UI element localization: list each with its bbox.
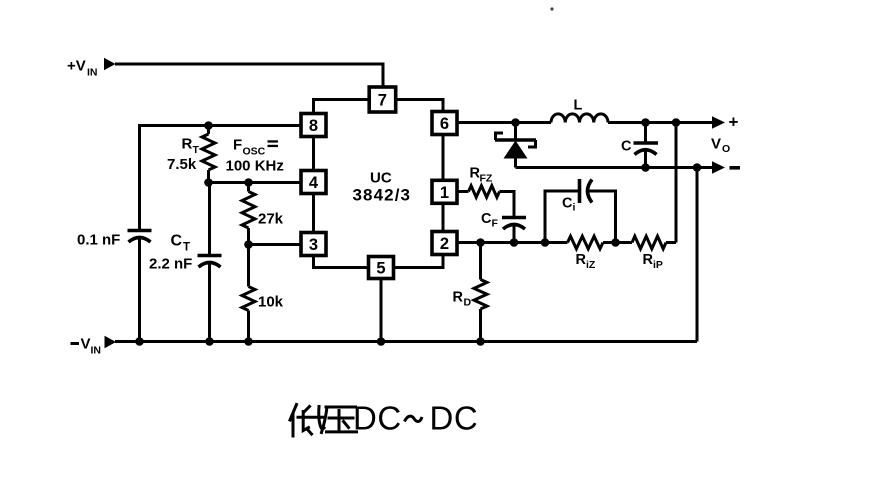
label -VIN: [71, 336, 102, 357]
capacitor Ci loop: [545, 179, 616, 243]
svg-text:UC: UC: [370, 170, 392, 187]
inductor L: [551, 114, 608, 123]
svg-text:IN: IN: [91, 345, 102, 357]
wire inductor to plus output: [608, 121, 713, 124]
label RT: [182, 136, 200, 157]
junction at 209.5,341.5: [205, 337, 214, 346]
wire right return riser: [696, 168, 699, 342]
svg-text:DC: DC: [353, 400, 402, 437]
junction at 139.5,341.5: [135, 337, 144, 346]
resistor RT 7.5k: [202, 126, 215, 183]
capacitor CT 2.2nF: [198, 183, 222, 342]
svg-text:R: R: [643, 252, 654, 268]
wire RiZ to RiP: [603, 241, 632, 244]
wire pin5 down: [380, 278, 383, 342]
junction at 248.5,244.5: [244, 240, 253, 249]
svg-text:DC: DC: [430, 400, 479, 437]
wire pin1 run: [458, 190, 469, 193]
op-amp U1 UC3842/3 body: [314, 100, 444, 268]
svg-text:O: O: [722, 143, 730, 155]
wire RiP to tap riser: [666, 241, 676, 244]
pin 7: [369, 87, 396, 112]
svg-text:C: C: [481, 211, 492, 227]
label RD: [453, 290, 472, 309]
wire pin3 run: [249, 243, 304, 246]
wire minus output rail: [516, 166, 714, 169]
svg-text:i: i: [573, 202, 576, 214]
junction at 545,242.5: [541, 238, 550, 247]
wire pin6 to switch node: [456, 121, 516, 124]
node -VIN arrow: [105, 336, 117, 348]
svg-text:T: T: [183, 242, 190, 254]
svg-text:T: T: [193, 144, 200, 156]
label VO: [711, 136, 730, 156]
svg-text:iZ: iZ: [586, 259, 596, 271]
junction at 615.5,242.5: [611, 238, 620, 247]
wire bottom ground rail: [115, 340, 697, 343]
svg-text:F: F: [492, 218, 499, 230]
resistor RFZ: [469, 186, 500, 198]
capacitor 0.1nF: [128, 231, 152, 342]
svg-text:4: 4: [309, 174, 319, 192]
svg-text:R: R: [576, 252, 587, 268]
resistor 10k: [242, 245, 255, 342]
label FOSC=: [233, 137, 278, 158]
wire switch node to inductor: [516, 121, 552, 124]
pin 3: [301, 233, 326, 256]
junction at 381,341.5: [377, 337, 386, 346]
capacitor C output: [634, 123, 659, 168]
pin 5: [369, 257, 394, 279]
svg-text:3: 3: [309, 236, 318, 254]
svg-text:3842/3: 3842/3: [353, 186, 412, 205]
junction at 480.5,242.5: [476, 238, 485, 247]
svg-text:F: F: [233, 137, 242, 154]
label RiP: [643, 252, 663, 271]
wire feedback tap riser: [675, 123, 678, 243]
wire pin2 run: [458, 241, 568, 244]
label UC 3842/3: [353, 170, 412, 205]
speck artifact: [550, 7, 553, 10]
label RFZ: [470, 166, 493, 185]
svg-text:0.1 nF: 0.1 nF: [77, 232, 120, 249]
wire pin4 run: [209, 181, 304, 184]
node +VIN input line: [115, 64, 383, 88]
wire pin8 to RT top node to left corner down to 0.1nF: [140, 126, 302, 230]
junction at 248.5,182.5: [244, 178, 253, 187]
resistor RiP: [632, 236, 666, 249]
svg-text:D: D: [464, 297, 472, 309]
caption hanzi YA (pressure): [322, 407, 357, 433]
svg-text:C: C: [621, 139, 632, 155]
svg-text:7: 7: [378, 92, 387, 110]
resistor RD: [474, 243, 487, 342]
svg-text:5: 5: [376, 260, 385, 278]
caption hanzi DI (low): [290, 405, 324, 437]
pin 6: [432, 112, 457, 135]
svg-text:6: 6: [440, 115, 449, 133]
label +VIN: [67, 58, 98, 79]
svg-text:C: C: [171, 233, 183, 250]
svg-text:8: 8: [309, 117, 318, 135]
capacitor CF: [502, 218, 526, 243]
pin 2: [432, 232, 457, 255]
label CF: [481, 211, 499, 230]
svg-text:iP: iP: [653, 259, 663, 271]
label RiZ: [576, 252, 596, 271]
svg-text:R: R: [182, 136, 193, 153]
node VO- arrow: [712, 161, 725, 173]
svg-text:7.5k: 7.5k: [167, 156, 197, 173]
label Ci: [562, 196, 576, 214]
junction at 515.5,122.5: [511, 118, 520, 127]
svg-text:+V: +V: [67, 58, 86, 75]
svg-text:V: V: [81, 336, 91, 353]
junction at 208.5,125.5: [204, 121, 213, 130]
svg-text:L: L: [574, 98, 583, 114]
svg-text:10k: 10k: [258, 294, 284, 311]
svg-text:27k: 27k: [258, 211, 284, 228]
junction at 514,242.5: [510, 238, 519, 247]
svg-text:V: V: [711, 136, 721, 153]
svg-text:FZ: FZ: [480, 173, 493, 185]
wire RFZ to CF corner: [500, 192, 515, 217]
svg-text:IN: IN: [87, 67, 98, 79]
junction at 248.5,341.5: [244, 337, 253, 346]
svg-text:R: R: [453, 290, 464, 306]
junction at 480.5,341.5: [476, 337, 485, 346]
junction at 208.5,182.5: [204, 178, 213, 187]
svg-text:1: 1: [440, 184, 449, 202]
pin 4: [301, 171, 326, 194]
svg-text:+: +: [729, 113, 739, 132]
pin 8: [301, 114, 326, 137]
svg-text:OSC: OSC: [243, 146, 266, 158]
svg-text:2.2 nF: 2.2 nF: [149, 256, 192, 273]
junction at 697,167.5: [693, 163, 702, 172]
diode D1 schottky freewheel: [495, 123, 536, 168]
label minus: [730, 166, 741, 170]
node VO+ arrow: [712, 116, 725, 128]
resistor RiZ: [568, 236, 604, 249]
node +VIN arrow: [104, 58, 116, 70]
pin 1: [432, 180, 457, 203]
junction at 676,122.5: [672, 118, 681, 127]
junction at 645.5,122.5: [641, 118, 650, 127]
svg-text:C: C: [562, 196, 573, 212]
svg-text:100 KHz: 100 KHz: [226, 158, 284, 175]
resistor 27k: [242, 183, 255, 245]
junction at 645.5,167.5: [641, 163, 650, 172]
svg-text:2: 2: [440, 235, 449, 253]
label CT: [171, 233, 191, 254]
